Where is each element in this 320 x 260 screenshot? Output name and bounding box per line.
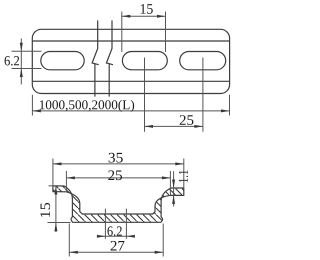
dim 6.2 section line	[97, 235, 134, 237]
rail upper flange line	[32, 40, 229, 42]
arrow dim 27 left	[69, 251, 78, 254]
slot edge left in section / dim 6.2 extension line	[104, 209, 106, 239]
label 6.2 section	[107, 226, 121, 235]
dim 15 section line	[55, 186, 57, 232]
dim 25 section extension line right	[169, 171, 171, 195]
dim 25 extension line right (from slot 3 center)	[202, 58, 204, 132]
arrow dim 25 section left	[66, 176, 75, 179]
dim 15 line	[122, 15, 166, 17]
arrow dim 1.1 bottom (outside)	[172, 195, 175, 204]
label 15	[141, 4, 153, 14]
slot 1	[41, 52, 84, 70]
arrow dim 15 section bottom	[54, 223, 57, 232]
dim 25 line	[145, 125, 203, 127]
dim 35 extension line left	[52, 159, 54, 186]
dim 15 extension line right	[165, 12, 167, 53]
dim 25 extension line left (from slot 2 center)	[144, 58, 146, 132]
label 25 section	[108, 170, 122, 180]
arrow dim length left	[32, 109, 41, 112]
dim 15 section top extension line	[49, 185, 54, 187]
break line left	[92, 20, 99, 96]
label 27	[111, 241, 125, 251]
break line right	[106, 20, 113, 96]
dim 35 extension line right	[183, 159, 185, 188]
rail lower flange line	[32, 80, 229, 82]
arrow dim 15 section top	[54, 186, 57, 195]
arrow dim 1.1 top (outside)	[172, 180, 175, 189]
rail profile band (hatched material)	[53, 186, 184, 223]
dim length extension line right	[229, 95, 231, 116]
slot 2	[122, 52, 167, 70]
arrow dim 35 left	[53, 162, 62, 165]
dim length extension line left	[31, 95, 33, 116]
label 6.2	[5, 56, 20, 65]
arrow dim 15 left	[122, 15, 131, 18]
dim 6.2 extension line bottom	[12, 68, 42, 70]
slot 3	[180, 52, 226, 70]
arrow dim 25 section right	[162, 176, 171, 179]
dim 1.1 line	[173, 171, 175, 206]
arrow dim 15 right	[157, 15, 166, 18]
label 35	[109, 153, 123, 163]
arrow dim 6.2 bottom (outside)	[20, 69, 23, 78]
label 1.1	[179, 170, 188, 182]
arrow dim 35 right	[175, 162, 184, 165]
arrow dim 6.2 section right (outside)	[126, 235, 134, 238]
label 15 section	[40, 203, 50, 217]
slot edge right in section / dim 6.2 extension line	[125, 209, 127, 239]
dim 35 line	[53, 163, 184, 165]
dim 6.2 extension line top	[12, 50, 42, 52]
dim 27 line	[69, 251, 163, 253]
dim 15 section bottom extension line	[48, 222, 71, 224]
dim 25 section extension line left	[65, 171, 67, 191]
label 1000,500,2000(L)	[40, 100, 134, 112]
dim 27 extension line left	[68, 224, 70, 257]
dim 27 extension line right	[162, 224, 164, 257]
rail outline	[32, 29, 229, 93]
arrow dim 25 right	[194, 125, 203, 128]
arrow dim length right	[221, 109, 230, 112]
arrow dim 25 left	[145, 125, 154, 128]
arrow dim 27 right	[155, 251, 164, 254]
dim 6.2 line	[20, 39, 22, 85]
label 25	[180, 115, 194, 125]
arrow dim 6.2 top (outside)	[20, 43, 23, 52]
dim 25 section line	[66, 177, 170, 179]
arrow dim 6.2 section left (outside)	[97, 235, 106, 238]
dim length line	[32, 110, 229, 112]
dim 15 extension line left	[121, 12, 123, 53]
